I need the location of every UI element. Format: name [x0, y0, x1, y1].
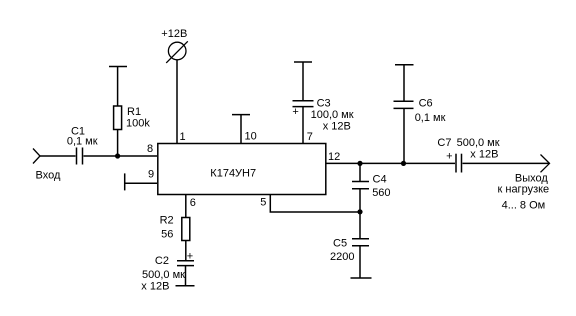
- svg-text:C7: C7: [437, 137, 451, 149]
- svg-text:2200: 2200: [330, 251, 354, 263]
- node C junction dot: [357, 209, 362, 214]
- svg-text:100,0 мк: 100,0 мк: [311, 109, 354, 121]
- resistor R1: [114, 106, 122, 130]
- svg-text:к нагрузке: к нагрузке: [498, 184, 550, 196]
- svg-text:56: 56: [161, 229, 173, 241]
- svg-text:C2: C2: [155, 255, 169, 267]
- wire C3 to pin 7: [302, 107, 304, 144]
- wire pin 6 to R2: [185, 195, 187, 218]
- capacitor C4: [352, 182, 369, 189]
- svg-text:500,0 мк: 500,0 мк: [457, 137, 500, 149]
- terminal bar above C3: [294, 61, 312, 63]
- power symbol +12V: [166, 41, 188, 63]
- wire C2 to ground bar: [185, 266, 187, 286]
- svg-text:К174УН7: К174УН7: [210, 168, 256, 180]
- svg-text:1: 1: [180, 131, 186, 143]
- svg-text:R1: R1: [127, 106, 141, 118]
- wire +12V to pin 1: [176, 60, 178, 144]
- wire pin 9: [125, 182, 157, 184]
- svg-text:4... 8 Ом: 4... 8 Ом: [502, 200, 546, 212]
- svg-text:12: 12: [328, 151, 340, 163]
- node A junction dot: [115, 153, 120, 158]
- wire C6 to node D: [403, 108, 405, 163]
- svg-text:5: 5: [260, 197, 266, 209]
- svg-text:+: +: [446, 150, 452, 162]
- svg-text:C5: C5: [333, 238, 347, 250]
- terminal bar above C6: [395, 64, 414, 66]
- wire pin 10 to terminal: [240, 115, 242, 144]
- ground terminal bar below C5: [351, 277, 372, 279]
- output terminal arrow (Выход): [541, 155, 550, 173]
- wire C7 to output arrow: [463, 162, 550, 164]
- ground terminal bar below C2: [176, 285, 195, 287]
- capacitor C6: [394, 101, 414, 108]
- svg-text:+12В: +12В: [161, 28, 187, 40]
- capacitor C2 electrolytic: [177, 261, 194, 266]
- svg-text:C4: C4: [373, 174, 387, 186]
- capacitor C1: [77, 148, 83, 165]
- capacitor C5: [352, 239, 369, 246]
- wire R1 to node A: [117, 130, 119, 157]
- svg-text:Вход: Вход: [36, 170, 61, 182]
- terminal bar pin 9: [124, 173, 126, 190]
- capacitor C3: [293, 101, 314, 107]
- wire node C to C5: [359, 212, 361, 239]
- node D junction dot C6: [401, 161, 406, 166]
- svg-text:+: +: [292, 106, 298, 118]
- wire input to C1: [40, 155, 76, 157]
- capacitor C7: [456, 154, 462, 173]
- wire node B to C4: [359, 163, 361, 181]
- svg-text:7: 7: [307, 131, 313, 143]
- terminal bar above R1: [109, 66, 127, 68]
- svg-text:560: 560: [372, 187, 390, 199]
- wire terminal to R1: [117, 67, 119, 107]
- svg-text:0,1 мк: 0,1 мк: [67, 136, 98, 148]
- wire C1 to node A: [84, 155, 158, 157]
- svg-text:500,0 мк: 500,0 мк: [142, 269, 185, 281]
- svg-text:8: 8: [147, 143, 153, 155]
- svg-text:+: +: [187, 251, 193, 263]
- terminal bar above pin 10: [232, 114, 250, 116]
- svg-text:х 12В: х 12В: [141, 281, 169, 293]
- svg-text:6: 6: [190, 197, 196, 209]
- input terminal arrow (Вход): [33, 149, 40, 164]
- svg-text:C3: C3: [317, 98, 331, 110]
- resistor R2: [182, 218, 190, 241]
- svg-text:х 12В: х 12В: [470, 148, 498, 160]
- node B junction dot C4: [357, 161, 362, 166]
- svg-text:R2: R2: [160, 215, 174, 227]
- svg-text:0,1 мк: 0,1 мк: [415, 112, 446, 124]
- wire C5 to ground bar: [359, 246, 361, 278]
- wire R2 to C2: [185, 241, 187, 261]
- svg-text:10: 10: [245, 131, 257, 143]
- svg-text:C6: C6: [419, 98, 433, 110]
- op-amp U1 K174UN7 body: [158, 144, 326, 195]
- wire pin 12 output: [326, 162, 455, 164]
- wire terminal to C3: [302, 62, 304, 100]
- svg-text:9: 9: [148, 169, 154, 181]
- svg-text:100k: 100k: [126, 118, 150, 130]
- wire C4 to node C: [359, 189, 361, 212]
- svg-text:х 12В: х 12В: [323, 120, 351, 132]
- wire terminal to C6: [403, 65, 405, 101]
- wire pin 5: [270, 195, 360, 213]
